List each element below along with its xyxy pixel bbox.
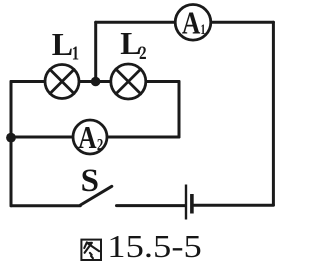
wire right branch vertical xyxy=(178,82,181,138)
battery long plate xyxy=(185,185,187,220)
wire junction to top xyxy=(94,22,97,81)
battery short plate xyxy=(190,194,194,214)
node on left wire xyxy=(6,133,16,143)
svg-text:15.5-5: 15.5-5 xyxy=(107,228,202,264)
switch S blade xyxy=(81,186,112,205)
svg-text:2: 2 xyxy=(139,43,147,64)
caption character tu (figure) box xyxy=(81,240,101,260)
ammeter A2 label xyxy=(78,121,103,156)
wire bottom middle xyxy=(117,204,186,207)
wire A2 row xyxy=(11,136,179,139)
svg-text:A: A xyxy=(182,6,201,41)
label L1 xyxy=(52,26,79,64)
wire lamp row xyxy=(11,80,179,83)
svg-text:A: A xyxy=(78,121,97,156)
lamp L2 xyxy=(111,64,146,99)
wire left vertical xyxy=(10,82,13,206)
lamp L1 xyxy=(45,65,79,99)
ammeter A2 xyxy=(73,120,107,154)
svg-text:1: 1 xyxy=(72,43,79,64)
svg-text:L: L xyxy=(52,26,73,62)
wire bottom right xyxy=(194,204,274,207)
svg-text:1: 1 xyxy=(200,20,205,37)
svg-text:2: 2 xyxy=(97,137,103,155)
wire right vertical xyxy=(272,22,275,205)
wire bottom left xyxy=(11,204,80,207)
caption character tu inner strokes xyxy=(84,242,99,258)
svg-text:S: S xyxy=(81,163,99,199)
label L2 xyxy=(120,25,146,64)
wire top row xyxy=(96,21,274,24)
node junction between L1 and L2 xyxy=(91,77,101,87)
ammeter A1 label xyxy=(182,6,206,41)
ammeter A1 xyxy=(175,5,211,41)
